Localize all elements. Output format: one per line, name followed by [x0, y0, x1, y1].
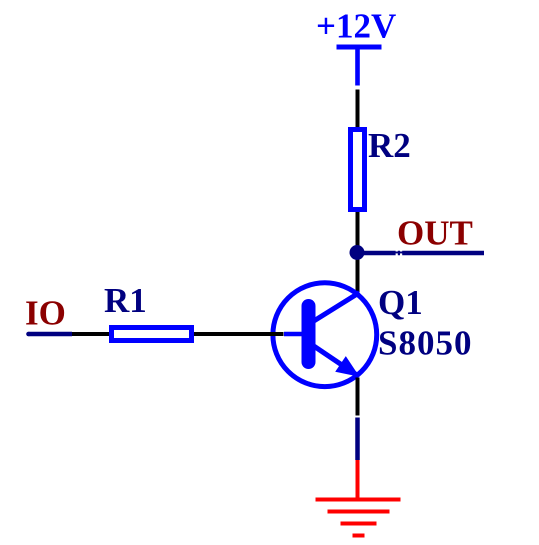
transistor Q1 emitter line with arrow: [313, 346, 360, 377]
wire emitter down: [356, 378, 360, 416]
transistor Q1 base bar: [302, 299, 316, 369]
wire node to collector: [356, 253, 360, 293]
net label OUT: [397, 214, 473, 253]
svg-text:R1: R1: [104, 281, 147, 320]
transistor Q1 collector line: [313, 293, 360, 322]
svg-text:+12V: +12V: [316, 7, 396, 46]
power +12V label: [316, 7, 396, 46]
wire from +12V to R2: [356, 90, 360, 128]
wire OUT junction marks: [396, 249, 403, 255]
transistor Q1 circle: [273, 283, 377, 387]
resistor R2: [351, 130, 365, 210]
svg-text:Q1: Q1: [378, 283, 423, 322]
ground: [316, 460, 401, 538]
wire navy segment to ground: [355, 418, 360, 461]
net label IO: [25, 294, 66, 333]
svg-text:S8050: S8050: [378, 324, 472, 363]
power +12V bar symbol: [337, 45, 382, 86]
svg-text:IO: IO: [25, 294, 66, 333]
label R2: [368, 126, 411, 165]
svg-text:R2: R2: [368, 126, 411, 165]
wire OUT: [357, 251, 484, 256]
label Q1: [378, 283, 423, 322]
label S8050: [378, 324, 472, 363]
resistor R1: [112, 328, 192, 341]
transistor Q1 base lead: [284, 332, 303, 337]
label R1: [104, 281, 147, 320]
wire from R2 to node: [356, 212, 360, 252]
wire IO stub: [26, 332, 72, 337]
wire R1 to base: [194, 332, 284, 336]
wire IO to R1: [72, 332, 110, 336]
node junction dot: [350, 245, 365, 260]
svg-text:OUT: OUT: [397, 214, 473, 253]
